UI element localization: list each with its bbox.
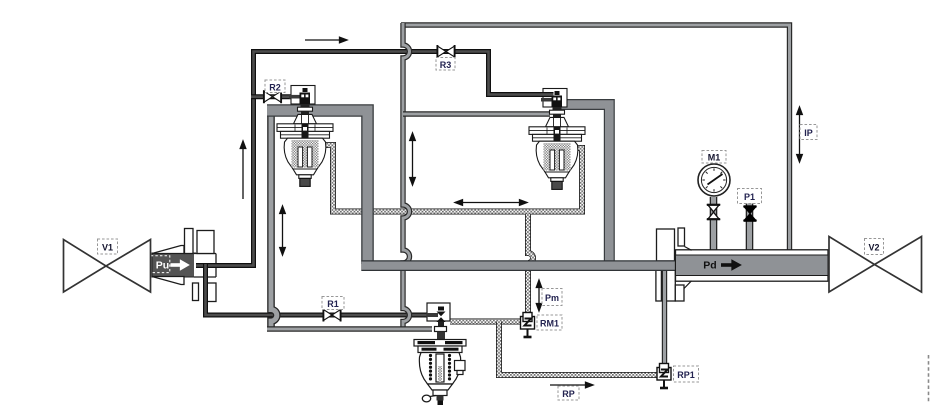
svg-text:IP: IP [804,128,813,138]
svg-text:RP1: RP1 [677,370,695,380]
svg-text:RM1: RM1 [540,319,559,329]
svg-text:P1: P1 [744,192,755,202]
svg-text:R1: R1 [327,299,339,309]
svg-text:M1: M1 [708,153,721,163]
svg-text:RP: RP [562,389,575,399]
svg-text:Pu: Pu [156,260,169,272]
svg-text:R2: R2 [269,83,281,93]
svg-text:V1: V1 [102,243,113,253]
svg-text:R3: R3 [440,60,452,70]
svg-text:Pm: Pm [545,293,559,303]
svg-text:Pd: Pd [703,260,716,272]
svg-text:V2: V2 [868,243,879,253]
